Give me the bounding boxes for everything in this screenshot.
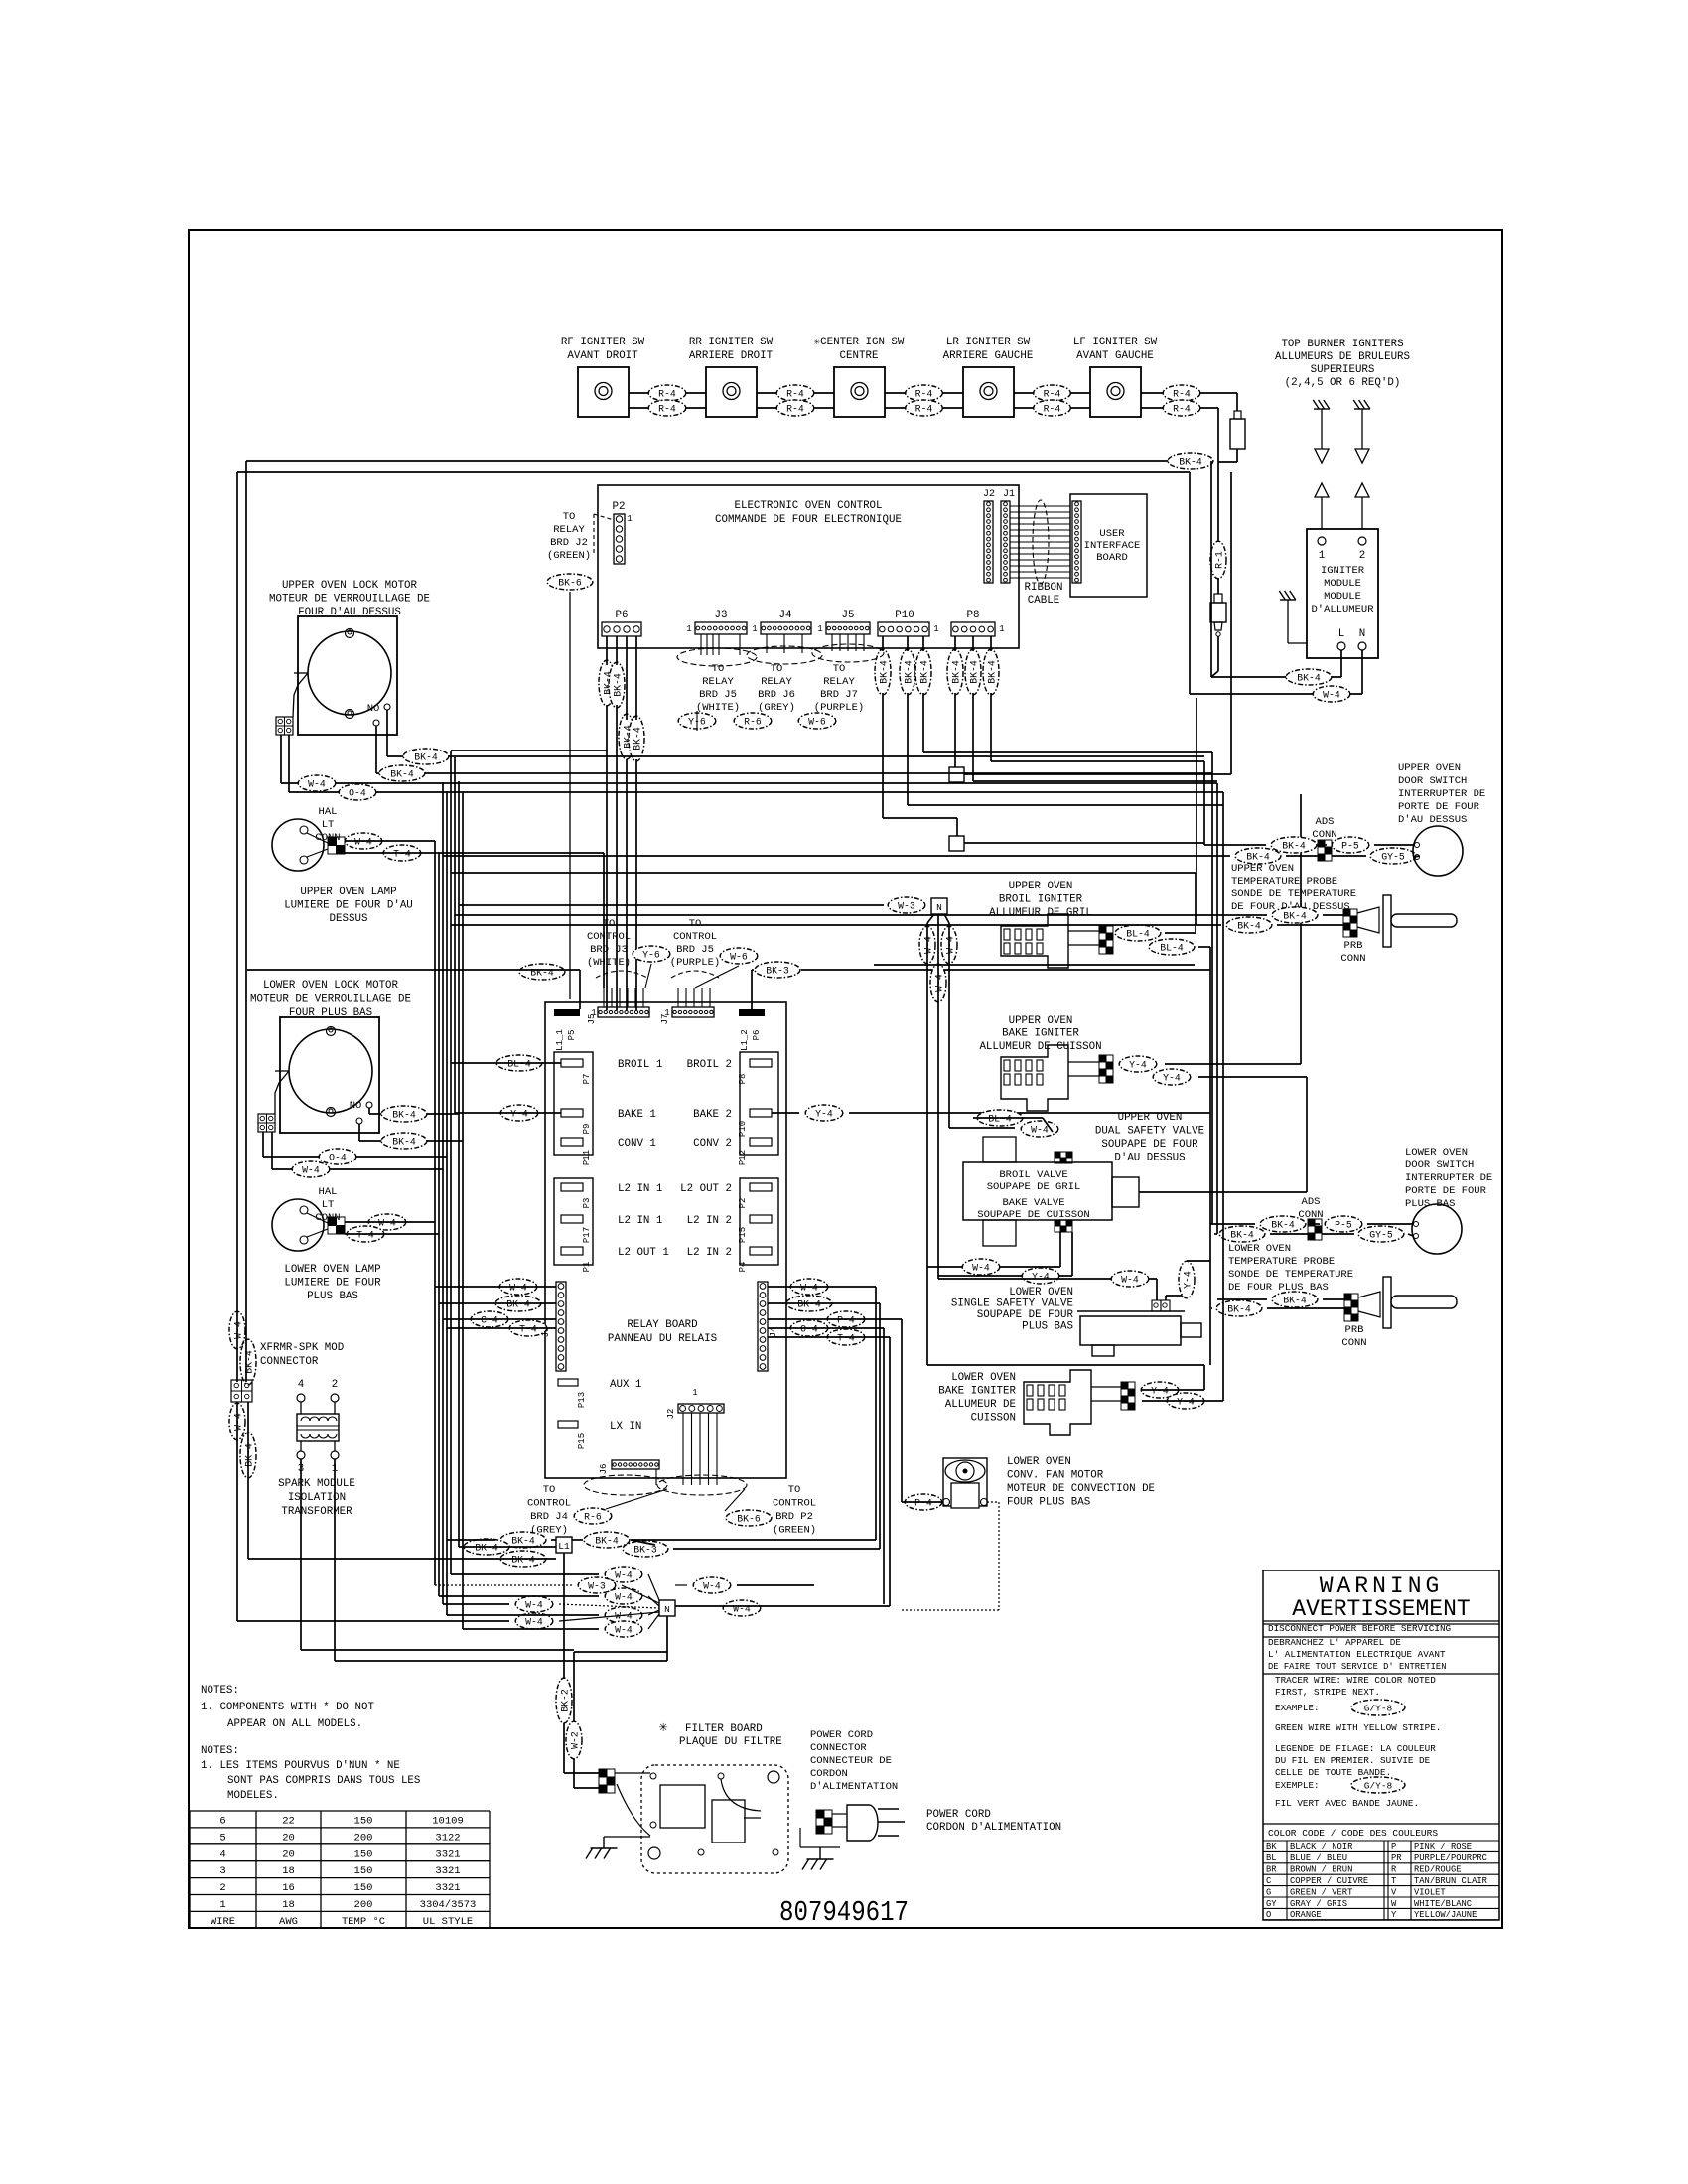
svg-text:APPEAR ON ALL MODELS.: APPEAR ON ALL MODELS.: [227, 1718, 362, 1730]
svg-text:EXEMPLE:: EXEMPLE:: [1275, 1780, 1320, 1791]
svg-text:DESSUS: DESSUS: [330, 913, 368, 925]
lower valve top connector: [1152, 1300, 1161, 1311]
svg-text:ARRIERE GAUCHE: ARRIERE GAUCHE: [943, 350, 1034, 362]
upper broil section frame: [451, 872, 1196, 874]
svg-text:O-4: O-4: [329, 1153, 347, 1163]
svg-text:TO: TO: [689, 918, 702, 930]
svg-text:YELLOW/JAUNE: YELLOW/JAUNE: [1414, 1910, 1477, 1920]
svg-text:BRD J5: BRD J5: [699, 689, 737, 701]
svg-text:3321: 3321: [435, 1882, 460, 1894]
node N upper: [931, 898, 947, 914]
svg-text:IGNITER: IGNITER: [1321, 565, 1365, 577]
svg-text:N: N: [1359, 628, 1365, 640]
wire Y-4 to P9: [500, 1105, 538, 1121]
svg-text:DOOR SWITCH: DOOR SWITCH: [1405, 1160, 1474, 1171]
svg-text:TEMP °C: TEMP °C: [342, 1916, 385, 1928]
upper oven door switch SW: [1413, 826, 1463, 876]
svg-text:L' ALIMENTATION ELECTRIQUE A: L' ALIMENTATION ELECTRIQUE AVANT: [1268, 1649, 1446, 1660]
svg-text:RELAY: RELAY: [553, 524, 585, 536]
svg-text:BAKE IGNITER: BAKE IGNITER: [1002, 1028, 1079, 1040]
svg-text:LOWER OVEN: LOWER OVEN: [1009, 1287, 1073, 1298]
svg-text:CONV 1: CONV 1: [618, 1138, 656, 1150]
svg-text:BK-4: BK-4: [633, 727, 643, 751]
svg-text:J3: J3: [715, 610, 728, 621]
svg-text:COLOR CODE / CODE DES COULEU: COLOR CODE / CODE DES COULEURS: [1268, 1828, 1438, 1839]
svg-text:W-2: W-2: [570, 1731, 581, 1749]
svg-text:BRD J6: BRD J6: [758, 689, 795, 701]
svg-text:W-4: W-4: [1121, 1275, 1139, 1286]
svg-text:W-3: W-3: [588, 1581, 606, 1592]
svg-text:807949617: 807949617: [779, 1896, 909, 1929]
svg-text:W-4: W-4: [615, 1625, 633, 1636]
wire from P-4 left down: [901, 1319, 903, 1502]
svg-text:TO: TO: [603, 918, 616, 930]
relay connector block L2 right: [740, 1178, 778, 1265]
wires J5 pins bundle: [831, 634, 833, 651]
wire long left bus 1: [245, 461, 247, 1382]
igniter leads with arrows: [1321, 409, 1323, 449]
svg-text:Y-4: Y-4: [1183, 1271, 1194, 1289]
svg-text:1: 1: [591, 1008, 596, 1018]
svg-text:P8: P8: [738, 1074, 748, 1085]
svg-text:3321: 3321: [435, 1865, 460, 1877]
svg-text:R-4: R-4: [786, 389, 804, 400]
svg-text:18: 18: [282, 1899, 295, 1911]
svg-text:ADS: ADS: [1302, 1196, 1321, 1208]
wire W-4 into lower valve: [938, 1278, 1157, 1280]
svg-text:SPARK MODULE: SPARK MODULE: [278, 1478, 355, 1490]
svg-text:USER: USER: [1099, 528, 1125, 540]
power cord connector to filter board: [599, 1769, 607, 1777]
svg-text:16: 16: [282, 1882, 295, 1894]
svg-text:150: 150: [354, 1865, 373, 1877]
svg-text:BL: BL: [1266, 1853, 1277, 1863]
svg-text:SONDE DE TEMPERATURE: SONDE DE TEMPERATURE: [1231, 888, 1356, 900]
svg-text:W-4: W-4: [1323, 690, 1340, 701]
svg-text:BK-4: BK-4: [475, 1543, 498, 1554]
svg-text:P15: P15: [738, 1227, 748, 1243]
svg-text:BR: BR: [1266, 1865, 1277, 1875]
svg-text:COMMANDE DE FOUR ELECTRONIQUE: COMMANDE DE FOUR ELECTRONIQUE: [715, 514, 902, 526]
svg-text:TEMPERATURE PROBE: TEMPERATURE PROBE: [1228, 1256, 1335, 1268]
svg-text:P-5: P-5: [1341, 841, 1359, 852]
svg-text:1: 1: [664, 1008, 669, 1018]
wires into L1 from left: [459, 1546, 556, 1548]
svg-text:UPPER OVEN LOCK MOTOR: UPPER OVEN LOCK MOTOR: [282, 580, 418, 592]
wire long left bus 2: [236, 472, 238, 1382]
svg-text:1. LES ITEMS POURVUS D'NUN *: 1. LES ITEMS POURVUS D'NUN * NE: [201, 1760, 400, 1772]
wires into J5 J7 connectors: [603, 988, 605, 1007]
svg-text:PLUS BAS: PLUS BAS: [1405, 1198, 1455, 1210]
junction square upper: [949, 767, 964, 782]
svg-text:P4: P4: [738, 1262, 748, 1273]
svg-text:PORTE DE FOUR: PORTE DE FOUR: [1398, 801, 1480, 813]
svg-text:P10: P10: [895, 610, 914, 621]
svg-text:1: 1: [817, 624, 822, 634]
ribbon cable lines: [1010, 505, 1070, 507]
svg-text:W-4: W-4: [972, 1263, 990, 1274]
svg-text:T: T: [1391, 1876, 1396, 1886]
svg-text:LUMIERE DE FOUR: LUMIERE DE FOUR: [284, 1278, 381, 1290]
relay connector block P7 P9 P11: [554, 1052, 593, 1155]
svg-text:COPPER / CUIVRE: COPPER / CUIVRE: [1290, 1876, 1368, 1886]
svg-text:MODELES.: MODELES.: [227, 1790, 279, 1802]
svg-text:CONV 2: CONV 2: [693, 1138, 732, 1150]
svg-text:L2 IN 1: L2 IN 1: [618, 1183, 662, 1195]
svg-text:P10: P10: [738, 1121, 748, 1137]
svg-text:1: 1: [933, 624, 938, 634]
svg-text:BK-4: BK-4: [1230, 1230, 1254, 1241]
svg-text:BAKE IGNITER: BAKE IGNITER: [938, 1386, 1016, 1398]
svg-text:O-4: O-4: [349, 788, 366, 799]
svg-text:NO: NO: [350, 1100, 362, 1112]
svg-text:BK-4: BK-4: [392, 1110, 416, 1121]
svg-text:BL-4: BL-4: [1126, 929, 1150, 940]
svg-text:TO: TO: [771, 663, 783, 675]
svg-text:LX IN: LX IN: [610, 1421, 641, 1433]
svg-text:GREEN / VERT: GREEN / VERT: [1290, 1887, 1352, 1897]
svg-text:P: P: [1391, 1843, 1396, 1852]
svg-text:TRACER WIRE: WIRE COLOR NOTED: TRACER WIRE: WIRE COLOR NOTED: [1275, 1675, 1436, 1686]
svg-text:BOARD: BOARD: [1096, 552, 1128, 564]
wires from upper N down: [919, 926, 935, 964]
svg-text:BK-4: BK-4: [511, 1536, 535, 1547]
svg-text:1: 1: [1319, 550, 1325, 562]
svg-text:R-4: R-4: [915, 389, 933, 400]
svg-text:L1_1: L1_1: [555, 1029, 565, 1051]
electronic oven control board: [598, 485, 1019, 648]
svg-text:ELECTRONIC OVEN CONTROL: ELECTRONIC OVEN CONTROL: [734, 500, 882, 512]
svg-text:O: O: [1266, 1910, 1271, 1920]
svg-text:LEGENDE DE FILAGE: LA COULEUR: LEGENDE DE FILAGE: LA COULEUR: [1275, 1743, 1436, 1754]
svg-text:DE FOUR PLUS BAS: DE FOUR PLUS BAS: [1228, 1282, 1329, 1294]
svg-text:DE FAIRE TOUT SERVICE D' E: DE FAIRE TOUT SERVICE D' ENTRETIEN: [1268, 1662, 1447, 1672]
svg-text:TO: TO: [833, 663, 846, 675]
svg-text:BK-4: BK-4: [613, 673, 624, 697]
svg-text:BK: BK: [1266, 1843, 1277, 1852]
svg-text:R-4: R-4: [1173, 404, 1191, 415]
svg-text:BK-4: BK-4: [1283, 1296, 1307, 1306]
svg-text:4: 4: [219, 1848, 225, 1860]
svg-text:BLACK / NOIR: BLACK / NOIR: [1290, 1843, 1353, 1852]
svg-text:L2 OUT 2: L2 OUT 2: [680, 1183, 732, 1195]
svg-text:BK-4: BK-4: [1227, 1304, 1251, 1315]
svg-text:NOTES:: NOTES:: [201, 1685, 239, 1697]
svg-text:HAL: HAL: [319, 1186, 338, 1198]
svg-text:ARRIERE DROIT: ARRIERE DROIT: [689, 350, 774, 362]
svg-text:LR IGNITER SW: LR IGNITER SW: [946, 337, 1031, 348]
svg-text:P-5: P-5: [1335, 1220, 1352, 1231]
svg-text:C-4: C-4: [481, 1315, 498, 1326]
svg-text:CORDON: CORDON: [810, 1768, 848, 1780]
upper PRB connector: [1272, 907, 1318, 923]
svg-text:BK-4: BK-4: [904, 660, 914, 684]
svg-text:PLUS BAS: PLUS BAS: [307, 1291, 358, 1302]
svg-text:L2 IN 2: L2 IN 2: [687, 1215, 732, 1227]
svg-text:CONNECTOR: CONNECTOR: [260, 1356, 319, 1368]
svg-text:LOWER OVEN LAMP: LOWER OVEN LAMP: [284, 1264, 380, 1276]
svg-text:150: 150: [354, 1816, 373, 1828]
svg-text:FIRST, STRIPE NEXT.: FIRST, STRIPE NEXT.: [1275, 1687, 1380, 1698]
svg-text:P7: P7: [582, 1074, 592, 1085]
wire L of igniter module to BK-4: [1340, 650, 1342, 677]
svg-text:BK-4: BK-4: [919, 660, 930, 684]
warning box: [1263, 1570, 1499, 1920]
svg-text:R-6: R-6: [744, 717, 762, 728]
wire dotted from fan motor: [987, 1501, 999, 1503]
svg-text:P1: P1: [582, 1262, 592, 1273]
wire vertical left W-4 BK-4 above connector: [229, 1311, 245, 1349]
svg-text:6: 6: [219, 1816, 225, 1828]
wires P6 pins down to bus: [606, 636, 608, 665]
node L1: [556, 1537, 572, 1553]
svg-text:MODULE: MODULE: [1324, 578, 1361, 590]
svg-text:W-4: W-4: [378, 1218, 396, 1229]
svg-text:BRD P2: BRD P2: [775, 1511, 813, 1523]
wires from J2 down: [682, 1413, 684, 1485]
svg-text:R: R: [1391, 1865, 1397, 1875]
svg-text:BK-2: BK-2: [560, 1689, 571, 1712]
svg-text:ALLUMEUR DE: ALLUMEUR DE: [945, 1399, 1016, 1411]
svg-text:BK-4: BK-4: [1282, 841, 1306, 852]
svg-text:J2: J2: [983, 489, 995, 500]
wires from lower lock motor: [368, 1108, 370, 1114]
svg-text:W: W: [1391, 1899, 1397, 1909]
svg-text:TOP BURNER IGNITERS: TOP BURNER IGNITERS: [1281, 339, 1403, 350]
svg-text:Y-4: Y-4: [1129, 1060, 1147, 1071]
svg-text:P8: P8: [967, 610, 980, 621]
color code table: [1263, 1840, 1499, 1842]
svg-text:BROWN / BRUN: BROWN / BRUN: [1290, 1865, 1352, 1875]
svg-text:PURPLE/POURPRC: PURPLE/POURPRC: [1414, 1853, 1487, 1863]
svg-text:BK-4: BK-4: [879, 660, 890, 684]
svg-text:BK-4: BK-4: [987, 660, 998, 684]
svg-text:SONT PAS COMPRIS DANS TOUS LES: SONT PAS COMPRIS DANS TOUS LES: [227, 1775, 420, 1787]
svg-text:CONV. FAN MOTOR: CONV. FAN MOTOR: [1007, 1470, 1104, 1482]
svg-text:20: 20: [282, 1832, 295, 1843]
svg-text:(GREY): (GREY): [758, 702, 795, 714]
xfrmr connector: [231, 1380, 252, 1402]
svg-text:G: G: [1266, 1887, 1271, 1897]
svg-text:150: 150: [354, 1848, 373, 1860]
wire bk-3 at relay board right: [755, 962, 800, 978]
svg-text:W-6: W-6: [808, 717, 826, 728]
svg-text:LUMIERE DE FOUR D'AU: LUMIERE DE FOUR D'AU: [284, 900, 413, 912]
svg-text:GRAY / GRIS: GRAY / GRIS: [1290, 1899, 1347, 1909]
svg-text:GY: GY: [1266, 1899, 1277, 1909]
svg-text:CONTROL: CONTROL: [587, 931, 631, 943]
svg-text:AWG: AWG: [279, 1916, 298, 1928]
svg-text:HAL: HAL: [319, 806, 338, 818]
wire from N down to power area: [666, 1616, 668, 1652]
svg-text:P-4: P-4: [837, 1315, 855, 1326]
svg-text:10109: 10109: [432, 1816, 464, 1828]
svg-text:R-4: R-4: [658, 389, 676, 400]
svg-text:CORDON D'ALIMENTATION: CORDON D'ALIMENTATION: [926, 1822, 1061, 1834]
svg-text:BK-4: BK-4: [1237, 921, 1261, 932]
svg-text:UPPER OVEN: UPPER OVEN: [1231, 863, 1294, 875]
svg-text:O-4: O-4: [800, 1324, 818, 1335]
svg-text:PANNEAU DU RELAIS: PANNEAU DU RELAIS: [608, 1333, 717, 1345]
svg-text:NO: NO: [367, 703, 380, 715]
svg-text:Y: Y: [1391, 1910, 1397, 1920]
svg-text:N: N: [936, 902, 942, 913]
svg-text:P17: P17: [582, 1227, 592, 1243]
svg-text:P11: P11: [582, 1150, 592, 1165]
svg-text:R-4: R-4: [786, 404, 804, 415]
wires from L1 right: [572, 1539, 583, 1541]
svg-text:PLAQUE DU FILTRE: PLAQUE DU FILTRE: [679, 1736, 782, 1748]
svg-text:FILTER BOARD: FILTER BOARD: [685, 1723, 763, 1735]
svg-text:ALLUMEUR DE CUISSON: ALLUMEUR DE CUISSON: [979, 1041, 1101, 1053]
filter board: [641, 1765, 788, 1873]
svg-text:(WHITE): (WHITE): [587, 957, 631, 969]
svg-text:BK-4: BK-4: [1179, 457, 1202, 468]
svg-text:(2,4,5 OR 6 REQ'D): (2,4,5 OR 6 REQ'D): [1285, 377, 1401, 389]
svg-text:RED/ROUGE: RED/ROUGE: [1414, 1865, 1462, 1875]
svg-text:CONN: CONN: [1340, 953, 1365, 965]
user interface board: [1070, 494, 1147, 597]
svg-text:BL-4: BL-4: [1160, 943, 1184, 954]
svg-text:1: 1: [752, 624, 757, 634]
svg-text:1: 1: [686, 624, 691, 634]
svg-text:CONTROL: CONTROL: [527, 1498, 571, 1510]
svg-text:SOUPAPE DE FOUR: SOUPAPE DE FOUR: [1101, 1139, 1198, 1151]
wires P8 pins down: [954, 636, 956, 651]
wire igniter switch return bus down right side: [1217, 408, 1219, 542]
wires J4 right with labels: [790, 1279, 828, 1295]
lower oven single safety valve: [1077, 1310, 1185, 1312]
svg-text:C: C: [1266, 1876, 1271, 1886]
svg-text:RF IGNITER SW: RF IGNITER SW: [561, 337, 645, 348]
svg-text:T-4: T-4: [837, 1333, 855, 1344]
svg-text:R-4: R-4: [915, 404, 933, 415]
wire Y-4 from P10 right: [805, 1105, 843, 1121]
svg-text:G/Y-8: G/Y-8: [1364, 1704, 1393, 1714]
svg-text:L2 IN 2: L2 IN 2: [687, 1247, 732, 1259]
svg-text:22: 22: [282, 1816, 295, 1828]
svg-text:BRD J5: BRD J5: [676, 944, 714, 956]
svg-text:BK-4: BK-4: [951, 660, 962, 684]
svg-text:MOTEUR DE VERROUILLAGE DE: MOTEUR DE VERROUILLAGE DE: [269, 594, 430, 606]
svg-text:PR: PR: [1391, 1853, 1402, 1863]
svg-text:CONN: CONN: [1341, 1337, 1366, 1349]
svg-text:D'ALLUMEUR: D'ALLUMEUR: [1311, 604, 1374, 615]
wire transformer pin 3 to power path: [300, 1459, 302, 1650]
svg-text:MOTEUR DE VERROUILLAGE DE: MOTEUR DE VERROUILLAGE DE: [250, 994, 411, 1006]
svg-text:D'ALIMENTATION: D'ALIMENTATION: [810, 1781, 898, 1793]
svg-text:AUX 1: AUX 1: [610, 1379, 641, 1391]
svg-text:BROIL VALVE: BROIL VALVE: [999, 1169, 1067, 1181]
wire bus right verticals: [1230, 472, 1232, 774]
svg-text:GREEN WIRE WITH YELLOW STRIPE.: GREEN WIRE WITH YELLOW STRIPE.: [1275, 1722, 1441, 1733]
svg-text:R-6: R-6: [584, 1512, 602, 1523]
svg-text:3: 3: [219, 1865, 225, 1877]
relay connector block L2 left: [554, 1178, 593, 1265]
svg-text:J2: J2: [666, 1409, 676, 1420]
svg-text:Y-4: Y-4: [510, 1109, 528, 1120]
upper oven dual safety valve: [977, 1110, 1023, 1126]
svg-text:INTERFACE: INTERFACE: [1084, 540, 1141, 552]
igniter module U3: [1307, 529, 1378, 658]
power cord connector: [816, 1810, 824, 1818]
svg-text:BRD J2: BRD J2: [550, 537, 588, 549]
svg-text:UPPER OVEN: UPPER OVEN: [1009, 881, 1073, 892]
top burner igniter sparker right: [1354, 408, 1370, 410]
svg-text:BK-6: BK-6: [737, 1514, 761, 1525]
wire left mid bus verticals: [434, 841, 436, 1585]
svg-text:BLUE / BLEU: BLUE / BLEU: [1290, 1853, 1347, 1863]
svg-text:BRD J3: BRD J3: [590, 944, 628, 956]
svg-text:DUAL SAFETY VALVE: DUAL SAFETY VALVE: [1095, 1126, 1204, 1138]
wire loop under lower valve: [927, 1364, 1204, 1366]
svg-text:PORTE DE FOUR: PORTE DE FOUR: [1405, 1185, 1487, 1197]
svg-text:1: 1: [627, 513, 633, 524]
svg-text:POWER CORD: POWER CORD: [810, 1729, 873, 1741]
svg-text:L1_2: L1_2: [740, 1029, 750, 1051]
svg-text:DOOR SWITCH: DOOR SWITCH: [1398, 775, 1467, 787]
svg-text:2: 2: [332, 1379, 338, 1391]
svg-text:150: 150: [354, 1882, 373, 1894]
svg-text:TO: TO: [788, 1484, 801, 1496]
svg-text:5: 5: [219, 1832, 225, 1843]
svg-text:20: 20: [282, 1848, 295, 1860]
svg-text:BK-4: BK-4: [414, 752, 438, 763]
wire N of igniter module to W-4: [1361, 650, 1363, 694]
svg-text:CONNECTEUR DE: CONNECTEUR DE: [810, 1755, 892, 1767]
svg-text:200: 200: [354, 1832, 373, 1843]
upper oven broil igniter: [1001, 914, 1068, 968]
svg-text:P6: P6: [616, 610, 629, 621]
svg-text:L2 OUT 1: L2 OUT 1: [618, 1247, 669, 1259]
svg-text:INTERRUPTER DE: INTERRUPTER DE: [1405, 1172, 1492, 1184]
svg-text:SINGLE SAFETY VALVE: SINGLE SAFETY VALVE: [951, 1298, 1073, 1310]
svg-text:T-4: T-4: [393, 849, 411, 860]
svg-text:FOUR PLUS BAS: FOUR PLUS BAS: [1007, 1497, 1090, 1509]
svg-text:PRB: PRB: [1344, 940, 1363, 952]
svg-text:W-6: W-6: [730, 952, 748, 963]
svg-text:GY-5: GY-5: [1369, 1230, 1393, 1241]
svg-text:200: 200: [354, 1899, 373, 1911]
svg-text:RELAY: RELAY: [702, 676, 734, 688]
wires below xfrmr connector: [236, 1402, 238, 1621]
svg-text:BK-4: BK-4: [797, 1299, 821, 1310]
svg-text:P2: P2: [738, 1198, 748, 1209]
svg-text:ADS: ADS: [1316, 816, 1335, 828]
relay board connector L1_2 P6: [739, 1009, 765, 1016]
svg-text:W-4: W-4: [509, 1283, 527, 1294]
svg-text:W-4: W-4: [1031, 1125, 1049, 1136]
svg-text:LF IGNITER SW: LF IGNITER SW: [1073, 337, 1158, 348]
svg-text:L1: L1: [558, 1541, 570, 1552]
wires J3 pins to Y-6 bundle: [700, 634, 702, 655]
svg-text:1. COMPONENTS WITH * DO NOT: 1. COMPONENTS WITH * DO NOT: [201, 1702, 374, 1713]
wires from J6: [655, 1469, 657, 1485]
wire Y-4 at lower valve: [1165, 1296, 1167, 1300]
svg-text:BRD J4: BRD J4: [530, 1511, 568, 1523]
wire group J3 to relay J5 with Y-6: [678, 713, 716, 729]
svg-text:BK-6: BK-6: [558, 578, 582, 589]
svg-text:DEBRANCHEZ L' APPAREL DE: DEBRANCHEZ L' APPAREL DE: [1268, 1637, 1401, 1648]
svg-text:SONDE DE TEMPERATURE: SONDE DE TEMPERATURE: [1228, 1269, 1353, 1281]
wire gauge table: [190, 1810, 490, 1812]
svg-text:2: 2: [1359, 550, 1365, 562]
svg-text:RELAY: RELAY: [823, 676, 855, 688]
svg-text:INTERRUPTER DE: INTERRUPTER DE: [1398, 788, 1485, 800]
svg-text:Y-4: Y-4: [1032, 1272, 1050, 1283]
svg-text:✳: ✳: [658, 1719, 667, 1736]
svg-text:2: 2: [219, 1882, 225, 1894]
